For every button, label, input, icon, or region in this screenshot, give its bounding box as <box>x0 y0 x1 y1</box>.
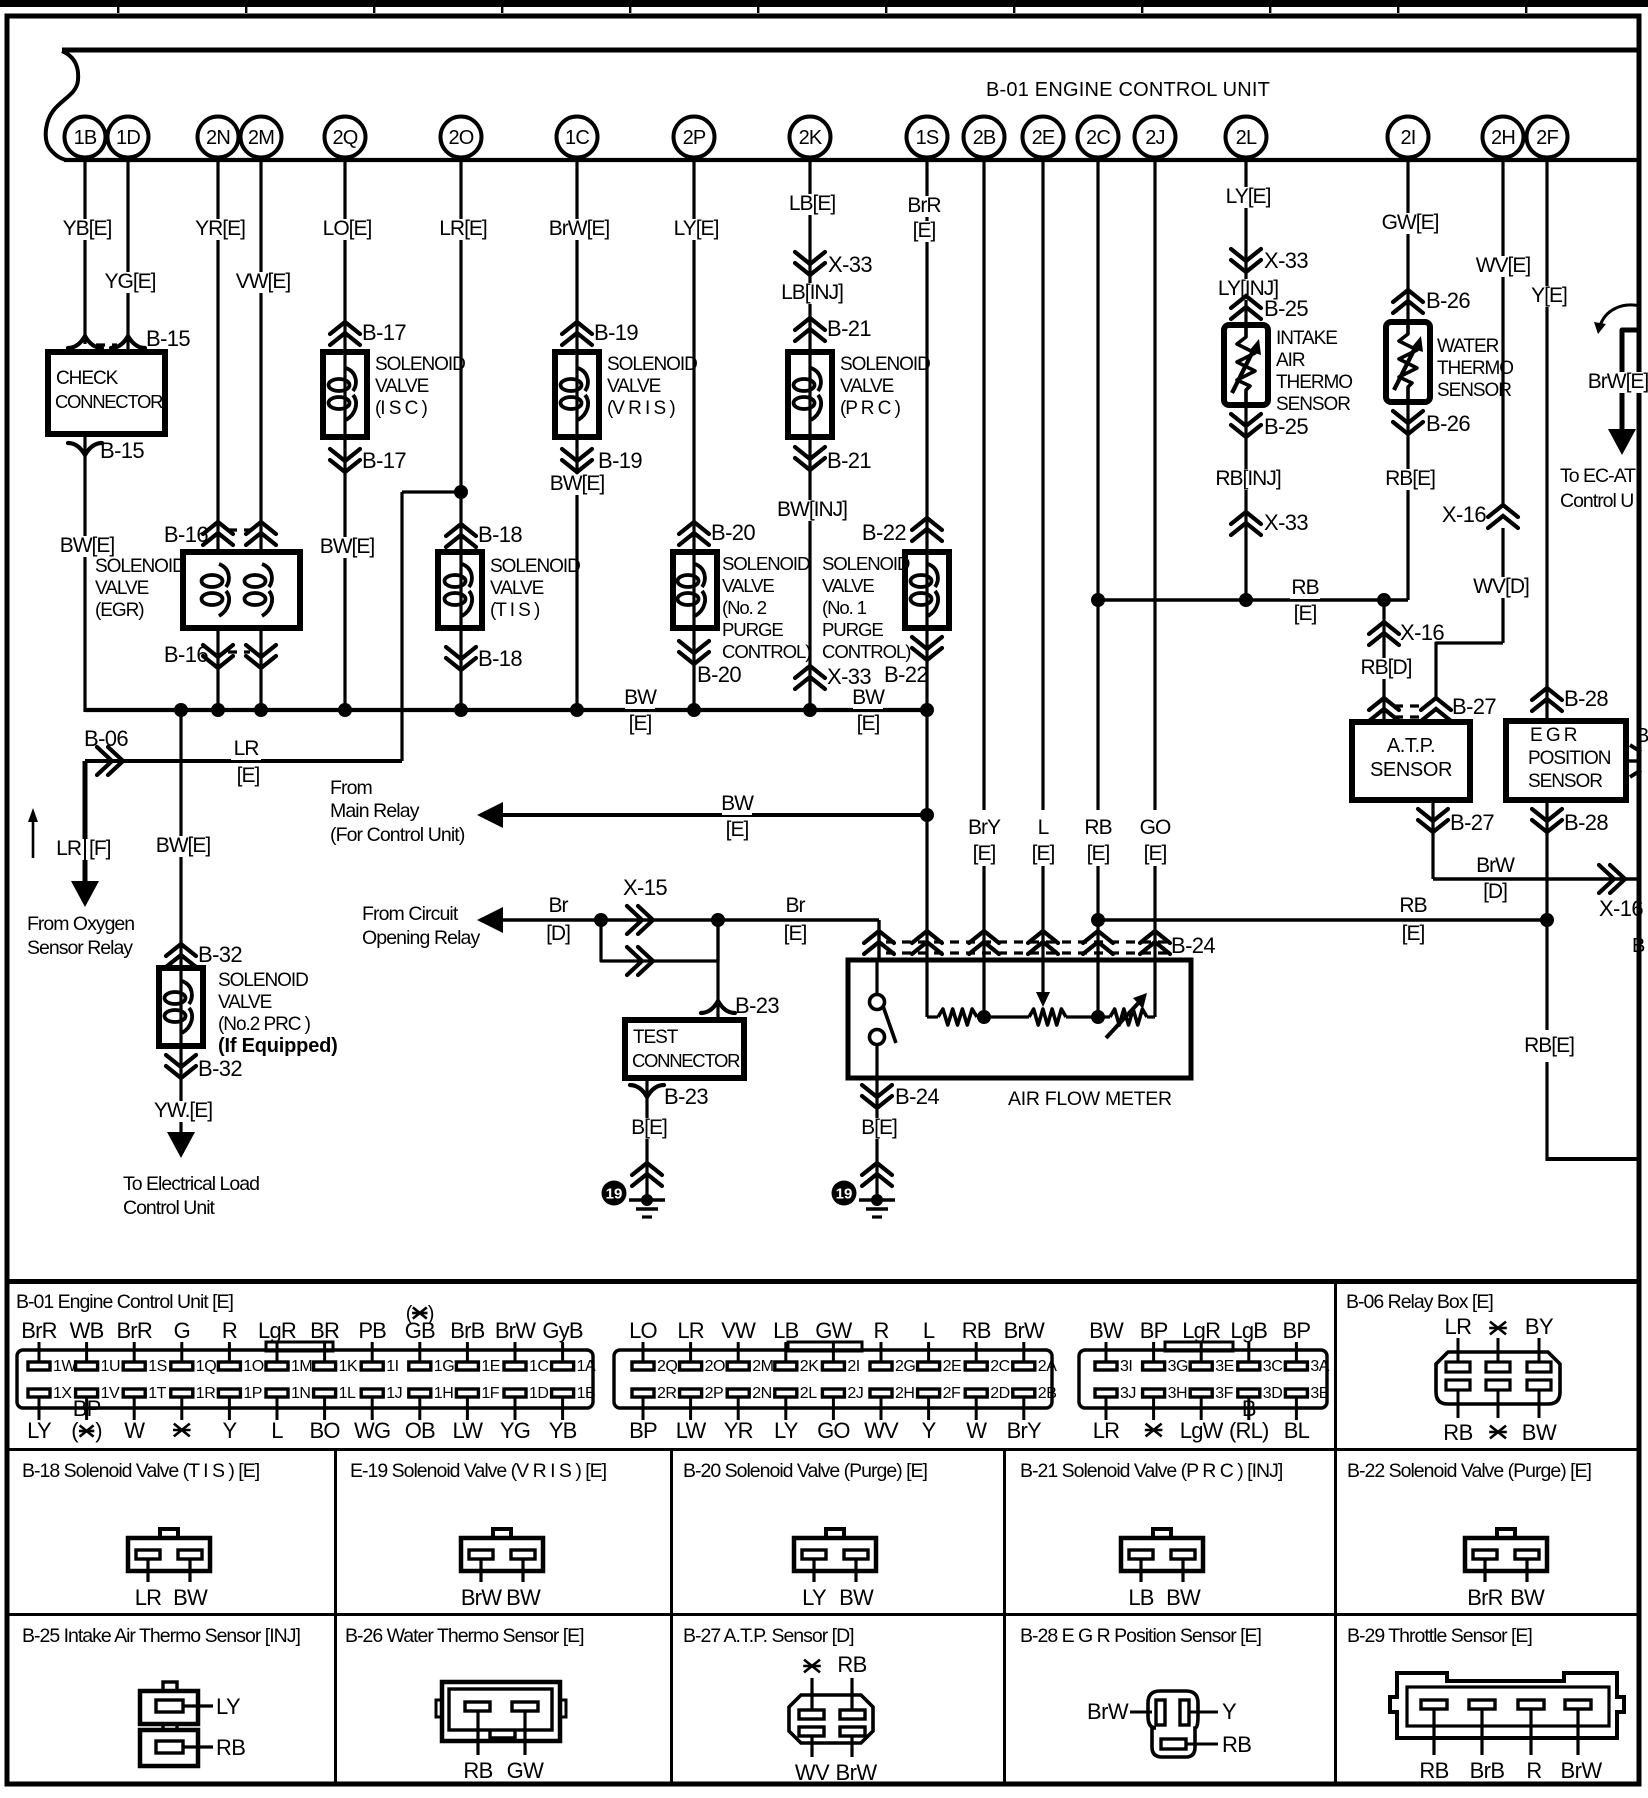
svg-text:BR: BR <box>310 1318 339 1343</box>
svg-text:B-16: B-16 <box>164 642 208 667</box>
svg-text:3D: 3D <box>1263 1385 1282 1402</box>
svg-text:CHECK: CHECK <box>56 368 119 389</box>
junction dot main-relay line at 1S <box>920 808 934 822</box>
svg-text:BrW[E]: BrW[E] <box>549 217 610 240</box>
svg-text:BP: BP <box>1283 1318 1311 1343</box>
svg-text:AIR FLOW METER: AIR FLOW METER <box>1008 1088 1172 1110</box>
svg-text:VALVE: VALVE <box>607 376 661 397</box>
connector B-26 upper <box>1393 290 1423 302</box>
svg-text:SOLENOID: SOLENOID <box>490 556 580 577</box>
ECU pin 2Q <box>325 117 366 158</box>
ECU pin 2P <box>674 117 715 158</box>
svg-text:YB: YB <box>549 1418 577 1443</box>
svg-text:B-20 Solenoid Valve (Purge) [: B-20 Solenoid Valve (Purge) [E] <box>683 1460 928 1482</box>
svg-text:[E]: [E] <box>726 818 749 841</box>
svg-text:BW[E]: BW[E] <box>550 472 605 495</box>
ground connector chevrons (AFM) <box>862 1163 892 1175</box>
svg-text:[E]: [E] <box>1402 922 1425 945</box>
svg-text:RB: RB <box>1399 894 1426 917</box>
svg-text:CONNECTOR: CONNECTOR <box>632 1050 740 1071</box>
svg-text:BrW: BrW <box>836 1760 878 1785</box>
svg-text:BrR: BrR <box>1467 1585 1503 1610</box>
svg-text:BrB: BrB <box>1470 1758 1505 1783</box>
svg-text:[F]: [F] <box>89 837 111 860</box>
ECU pin 2F <box>1527 117 1568 158</box>
intake air thermo sensor box <box>1224 325 1268 405</box>
svg-text:AIR: AIR <box>1276 350 1305 371</box>
svg-text:BP: BP <box>629 1418 657 1443</box>
svg-text:BrW: BrW <box>1004 1318 1045 1343</box>
svg-text:B-06 Relay Box [E]: B-06 Relay Box [E] <box>1346 1291 1493 1313</box>
svg-text:(V R I S ): (V R I S ) <box>607 398 675 419</box>
svg-text:B-23: B-23 <box>735 993 779 1018</box>
wire RB[E] branch to sensors <box>1098 598 1408 601</box>
svg-text:R: R <box>873 1318 888 1343</box>
svg-text:SENSOR: SENSOR <box>1528 771 1602 792</box>
wire B[E] below AFM <box>875 1078 878 1200</box>
svg-text:From Oxygen: From Oxygen <box>27 913 134 935</box>
wire Br[E] to air flow meter <box>718 918 879 921</box>
wire BrY[E] from pin 2B <box>982 160 985 810</box>
svg-text:LgR: LgR <box>1182 1318 1220 1343</box>
svg-text:BW: BW <box>839 1585 874 1610</box>
wire LY[E] from pin 2P <box>692 160 695 552</box>
svg-text:VW[E]: VW[E] <box>236 270 291 293</box>
ECU pin 2E <box>1023 117 1064 158</box>
svg-text:B-06: B-06 <box>84 726 128 751</box>
svg-text:Y[E]: Y[E] <box>1531 284 1567 307</box>
wire Br[D] from circuit opening relay <box>502 918 601 921</box>
svg-text:(No.2 PRC ): (No.2 PRC ) <box>218 1014 311 1035</box>
wire LO[E] from pin 2Q <box>343 160 346 352</box>
svg-text:1T: 1T <box>148 1385 166 1402</box>
AFM internal rail wires <box>925 960 928 1017</box>
svg-text:BW: BW <box>721 792 754 815</box>
svg-text:BW: BW <box>852 686 885 709</box>
connector B-17 lower <box>330 460 360 472</box>
svg-text:B-18 Solenoid Valve (T I S ): B-18 Solenoid Valve (T I S ) [E] <box>22 1460 260 1482</box>
svg-text:RB: RB <box>1084 816 1111 839</box>
connector B-16 upper pair <box>203 522 233 534</box>
connector icon E-19 <box>493 1529 511 1538</box>
svg-text:(T I S ): (T I S ) <box>490 600 540 621</box>
svg-text:B-17: B-17 <box>362 448 406 473</box>
svg-text:LO[E]: LO[E] <box>323 217 372 240</box>
connector B-20 lower <box>679 652 709 664</box>
svg-text:PURGE: PURGE <box>822 619 883 640</box>
svg-text:BrW: BrW <box>1476 854 1515 877</box>
svg-text:2O: 2O <box>705 1358 725 1375</box>
ECU pin 2K <box>790 117 831 158</box>
svg-text:(For Control Unit): (For Control Unit) <box>330 824 465 846</box>
svg-text:X-15: X-15 <box>623 875 667 900</box>
wire LB[E] from pin 2K <box>808 160 811 352</box>
wire BW[INJ] below PRC to bus <box>808 437 811 710</box>
svg-text:From: From <box>330 777 372 799</box>
svg-text:[E]: [E] <box>237 764 260 787</box>
svg-text:LY: LY <box>216 1694 241 1719</box>
ground reference badge 19 (AFM) <box>832 1181 857 1206</box>
svg-text:B[E]: B[E] <box>631 1116 667 1139</box>
svg-text:BW[E]: BW[E] <box>60 534 115 557</box>
connector icon B-18 <box>160 1529 178 1538</box>
ECU pin 2N <box>198 117 239 158</box>
svg-text:RB[D]: RB[D] <box>1360 656 1411 679</box>
wire RB[E] from pin 2C <box>1096 160 1099 810</box>
ECU pin 2I <box>1388 117 1429 158</box>
svg-text:1Q: 1Q <box>196 1358 216 1375</box>
svg-text:2D: 2D <box>990 1385 1009 1402</box>
connector B-23 lower <box>630 1085 664 1097</box>
wire RB[D] branch to ATP sensor <box>1382 600 1385 722</box>
connector B-16 lower pair <box>203 656 233 668</box>
svg-text:LR: LR <box>1093 1418 1120 1443</box>
svg-text:Y: Y <box>922 1418 937 1443</box>
wire B[E] below test connector <box>645 1078 648 1200</box>
solenoid valve (No.2 PRC) box <box>159 968 203 1046</box>
svg-text:BW: BW <box>1510 1585 1545 1610</box>
svg-text:WV[D]: WV[D] <box>1473 575 1529 598</box>
svg-text:3B: 3B <box>1310 1385 1329 1402</box>
svg-text:YB[E]: YB[E] <box>63 217 112 240</box>
svg-text:Br: Br <box>549 894 569 917</box>
table top border <box>7 1279 1639 1284</box>
svg-text:2L: 2L <box>800 1385 817 1402</box>
svg-text:GW: GW <box>815 1318 852 1343</box>
svg-text:1D: 1D <box>116 127 140 149</box>
svg-text:1L: 1L <box>339 1385 356 1402</box>
wire L[E] from pin 2E <box>1041 160 1044 810</box>
svg-text:B-15: B-15 <box>100 438 144 463</box>
wire BrW[D] to X-16 right <box>1433 877 1639 880</box>
svg-text:W: W <box>124 1418 145 1443</box>
svg-text:[E]: [E] <box>913 219 936 242</box>
svg-text:1U: 1U <box>101 1358 120 1375</box>
svg-text:SENSOR: SENSOR <box>1370 759 1452 781</box>
junction dot X-15 right <box>711 913 725 927</box>
table column dividers row3 <box>334 1613 337 1786</box>
svg-text:1K: 1K <box>339 1358 358 1375</box>
air flow meter box <box>848 960 1191 1078</box>
svg-text:(If Equipped): (If Equipped) <box>218 1035 338 1057</box>
svg-text:RB: RB <box>962 1318 991 1343</box>
svg-text:2N: 2N <box>752 1385 771 1402</box>
svg-text:PB: PB <box>358 1318 386 1343</box>
water thermo sensor box <box>1386 322 1430 402</box>
svg-text:X-33: X-33 <box>828 252 872 277</box>
svg-text:LY: LY <box>27 1418 52 1443</box>
svg-text:B-25: B-25 <box>1264 296 1308 321</box>
connector B-17 upper <box>330 322 360 334</box>
svg-text:2C: 2C <box>1086 127 1110 149</box>
wire below EGR position sensor <box>1545 800 1548 1030</box>
solenoid valve (PRC) box <box>788 352 832 437</box>
ground connector chevrons (test connector) <box>632 1163 662 1175</box>
connector B-28 lower <box>1532 820 1562 832</box>
svg-text:B-21: B-21 <box>827 448 871 473</box>
arrow to electrical load control unit <box>167 1132 195 1158</box>
svg-text:Y: Y <box>222 1418 237 1443</box>
connector B-15 lower <box>68 443 102 455</box>
connector B-22 upper <box>912 518 942 530</box>
small up arrow beside LR[F] <box>32 820 35 858</box>
svg-text:2J: 2J <box>847 1385 863 1402</box>
svg-text:YW.[E]: YW.[E] <box>154 1099 212 1122</box>
svg-text:B-18: B-18 <box>478 522 522 547</box>
svg-text:R: R <box>1526 1758 1541 1783</box>
svg-text:SOLENOID: SOLENOID <box>840 354 930 375</box>
ECU pin 2B <box>964 117 1005 158</box>
svg-text:SOLENOID: SOLENOID <box>822 553 910 574</box>
svg-text:X-33: X-33 <box>827 664 871 689</box>
connector B-20 upper <box>679 522 709 534</box>
svg-text:LB[E]: LB[E] <box>789 192 836 215</box>
arrow to Main Relay <box>477 802 503 828</box>
svg-text:2I: 2I <box>847 1358 859 1375</box>
page top ruler line <box>0 0 1648 7</box>
wire 2F to right border <box>1545 1062 1548 1161</box>
curved arrow to EC-AT <box>1600 305 1640 326</box>
ECU pin 2J <box>1135 117 1176 158</box>
wire below No.1 purge valve <box>925 628 928 960</box>
wire LR[E] from pin 2O <box>459 160 462 492</box>
connector B-25 lower <box>1231 425 1261 437</box>
svg-text:RB[E]: RB[E] <box>1524 1034 1574 1057</box>
junction dot ATP branch on RB[E] <box>1377 593 1391 607</box>
svg-text:1R: 1R <box>196 1385 215 1402</box>
svg-text:2L: 2L <box>1236 127 1257 149</box>
svg-text:BW: BW <box>506 1585 541 1610</box>
wire to test connector <box>716 920 719 1020</box>
svg-text:LR[E]: LR[E] <box>439 217 487 240</box>
svg-text:RB: RB <box>837 1652 866 1677</box>
svg-text:LR: LR <box>135 1585 162 1610</box>
svg-text:B-01 ENGINE CONTROL UNIT: B-01 ENGINE CONTROL UNIT <box>986 79 1270 101</box>
svg-text:B-15: B-15 <box>146 326 190 351</box>
ECU pin 2C <box>1078 117 1119 158</box>
connector X-16 on 2H <box>1488 505 1518 517</box>
solenoid valve (EGR) box with two coils <box>183 552 300 628</box>
svg-text:2R: 2R <box>657 1385 676 1402</box>
svg-text:BrW[E]: BrW[E] <box>1588 370 1648 393</box>
AFM potentiometer with wiper <box>1029 1009 1066 1025</box>
svg-text:B-23: B-23 <box>664 1084 708 1109</box>
svg-text:BrR: BrR <box>116 1318 152 1343</box>
svg-text:BW: BW <box>1522 1420 1557 1445</box>
ECU bus top line <box>62 48 1641 53</box>
svg-text:LR: LR <box>234 737 260 760</box>
AFM flap switch <box>870 995 885 1010</box>
svg-text:BrR: BrR <box>907 194 941 217</box>
wire GO[E] from pin 2J <box>1153 160 1156 810</box>
svg-text:LgW: LgW <box>1180 1418 1224 1443</box>
svg-text:[E]: [E] <box>973 842 996 865</box>
svg-text:BrW: BrW <box>495 1318 536 1343</box>
svg-text:1V: 1V <box>101 1385 120 1402</box>
svg-text:(I S C ): (I S C ) <box>375 398 427 419</box>
ECU bus bottom line <box>64 158 1641 162</box>
connector X-15 loop <box>601 918 718 921</box>
wire YW[E] below No.2 PRC <box>179 1046 182 1132</box>
svg-text:B-21 Solenoid Valve (P R C ): B-21 Solenoid Valve (P R C ) [INJ] <box>1020 1460 1283 1482</box>
wire YR[E] from pin 2N <box>216 160 219 552</box>
connector B-28 upper <box>1532 688 1562 700</box>
svg-text:1H: 1H <box>434 1385 453 1402</box>
wire LR[E] jog to relay-box route <box>402 490 461 493</box>
svg-text:2Q: 2Q <box>657 1358 677 1375</box>
svg-text:1A: 1A <box>577 1358 596 1375</box>
svg-text:B-22: B-22 <box>884 662 928 687</box>
svg-text:1G: 1G <box>434 1358 454 1375</box>
svg-text:LgR: LgR <box>258 1318 296 1343</box>
wire BW[E] below check connector <box>83 434 86 712</box>
svg-text:LgB: LgB <box>1230 1318 1267 1343</box>
svg-text:BW: BW <box>1089 1318 1124 1343</box>
svg-text:LY: LY <box>774 1418 799 1443</box>
svg-text:[E]: [E] <box>1294 602 1317 625</box>
svg-text:3H: 3H <box>1168 1385 1187 1402</box>
wire below TIS to bus <box>459 628 462 710</box>
label BW[E] on bus right <box>853 688 883 709</box>
svg-text:2O: 2O <box>448 127 473 149</box>
svg-text:Main Relay: Main Relay <box>330 800 420 822</box>
wire RB[INJ] below intake air thermo sensor <box>1244 405 1247 600</box>
svg-text:Control U: Control U <box>1560 490 1633 512</box>
svg-text:SENSOR: SENSOR <box>1437 380 1511 401</box>
svg-text:B-24: B-24 <box>1171 933 1215 958</box>
svg-text:[E]: [E] <box>857 712 880 735</box>
svg-text:GyB: GyB <box>542 1318 583 1343</box>
svg-text:To EC-AT: To EC-AT <box>1560 465 1636 487</box>
svg-text:WV: WV <box>795 1760 830 1785</box>
svg-text:BrW: BrW <box>1561 1758 1603 1783</box>
ECU pin 2H <box>1483 117 1524 158</box>
connector B-25 upper <box>1231 296 1261 308</box>
svg-text:B-27 A.T.P. Sensor [D]: B-27 A.T.P. Sensor [D] <box>683 1625 854 1647</box>
label RB[E] on 2F wire <box>1518 1036 1581 1057</box>
svg-text:2A: 2A <box>1038 1358 1057 1375</box>
connector B-21 upper <box>795 318 825 330</box>
svg-text:(P R C ): (P R C ) <box>840 398 901 419</box>
svg-text:LW: LW <box>453 1418 484 1443</box>
svg-text:X-16: X-16 <box>1400 620 1444 645</box>
bus left torn-edge squiggle <box>46 51 78 160</box>
svg-text:(EGR): (EGR) <box>95 600 144 621</box>
svg-text:B-17: B-17 <box>362 320 406 345</box>
svg-text:GO: GO <box>817 1418 850 1443</box>
connector B-19 upper <box>562 322 592 334</box>
svg-text:VALVE: VALVE <box>822 575 874 596</box>
svg-text:SOLENOID: SOLENOID <box>218 970 308 991</box>
svg-text:19: 19 <box>606 1186 623 1203</box>
svg-text:RB: RB <box>1222 1732 1251 1757</box>
svg-text:E-19 Solenoid Valve (V R I S ): E-19 Solenoid Valve (V R I S ) [E] <box>350 1460 607 1482</box>
arrow to Circuit Opening Relay <box>477 907 503 933</box>
ECU connector block 2 (2A-2R) <box>614 1350 1052 1408</box>
svg-text:2E: 2E <box>943 1358 962 1375</box>
connector B-27 upper pair (dashed) <box>1369 698 1399 710</box>
svg-text:1X: 1X <box>53 1385 72 1402</box>
connector B-22 lower <box>912 648 942 660</box>
svg-text:YG: YG <box>500 1418 530 1443</box>
connector icon B-26 <box>436 1700 442 1717</box>
svg-text:BrY: BrY <box>968 816 1001 839</box>
svg-text:LW: LW <box>676 1418 707 1443</box>
wire YB[E] from pin 1B <box>83 160 86 344</box>
ruler tick marks <box>117 0 119 13</box>
node RB[E] branch at 2C (y=920) <box>1091 913 1105 927</box>
ECU pin 1S <box>907 117 948 158</box>
svg-text:2B: 2B <box>973 127 996 149</box>
svg-text:B-25: B-25 <box>1264 414 1308 439</box>
connector B-32 upper <box>166 944 196 956</box>
svg-text:B-19: B-19 <box>594 320 638 345</box>
svg-text:B-21: B-21 <box>827 316 871 341</box>
svg-text:(: ( <box>406 1303 413 1325</box>
svg-text:[E]: [E] <box>1087 842 1110 865</box>
svg-text:2M: 2M <box>248 127 274 149</box>
svg-text:L: L <box>271 1418 283 1443</box>
svg-text:BrR: BrR <box>21 1318 57 1343</box>
wire WV[E] from pin 2H <box>1501 160 1504 505</box>
svg-text:1M: 1M <box>291 1358 312 1375</box>
wire below ATP sensor <box>1431 800 1434 879</box>
svg-text:B-32: B-32 <box>198 1056 242 1081</box>
svg-text:[D]: [D] <box>1483 880 1507 903</box>
svg-text:B-16: B-16 <box>164 522 208 547</box>
svg-text:B-26: B-26 <box>1426 411 1470 436</box>
svg-text:WG: WG <box>354 1418 390 1443</box>
svg-text:B-22 Solenoid Valve (Purge) [: B-22 Solenoid Valve (Purge) [E] <box>1347 1460 1592 1482</box>
svg-text:1C: 1C <box>565 127 589 149</box>
svg-text:VALVE: VALVE <box>840 376 894 397</box>
svg-text:1P: 1P <box>243 1385 262 1402</box>
svg-text:2E: 2E <box>1032 127 1055 149</box>
connector icon B-25 <box>163 1682 177 1691</box>
svg-text:BO: BO <box>310 1418 341 1443</box>
svg-text:WB: WB <box>70 1318 104 1343</box>
svg-text:B-01 Engine Control Unit [E]: B-01 Engine Control Unit [E] <box>16 1291 234 1313</box>
svg-text:2G: 2G <box>895 1358 915 1375</box>
svg-text:1F: 1F <box>481 1385 499 1402</box>
connector B-32 lower <box>166 1066 196 1078</box>
svg-text:A.T.P.: A.T.P. <box>1387 735 1435 757</box>
svg-text:(No. 1: (No. 1 <box>822 597 867 618</box>
solenoid valve (VRIS) box <box>555 352 599 437</box>
svg-text:X-33: X-33 <box>1264 510 1308 535</box>
svg-text:VW: VW <box>721 1318 756 1343</box>
svg-text:B[E]: B[E] <box>861 1116 897 1139</box>
ground reference badge 19 (test connector) <box>602 1181 627 1206</box>
svg-text:BP: BP <box>1140 1318 1168 1343</box>
connector icon B-20 <box>826 1529 844 1538</box>
svg-text:VALVE: VALVE <box>722 575 774 596</box>
connector X-16 exit right <box>1599 865 1614 893</box>
svg-text:TEST: TEST <box>633 1027 679 1048</box>
svg-text:1O: 1O <box>243 1358 263 1375</box>
svg-text:RB: RB <box>216 1735 245 1760</box>
svg-text:BW: BW <box>1166 1585 1201 1610</box>
connector B-24 dashed row <box>886 940 1168 943</box>
EGR position sensor right stub to edge connector <box>1626 759 1639 762</box>
svg-text:1J: 1J <box>386 1385 402 1402</box>
connector X-33 on 2K upper <box>795 263 825 275</box>
svg-text:THERMO: THERMO <box>1276 372 1352 393</box>
svg-text:2C: 2C <box>990 1358 1009 1375</box>
svg-text:Y: Y <box>1222 1699 1237 1724</box>
svg-text:SOLENOID: SOLENOID <box>375 354 465 375</box>
svg-text:[D]: [D] <box>546 922 570 945</box>
